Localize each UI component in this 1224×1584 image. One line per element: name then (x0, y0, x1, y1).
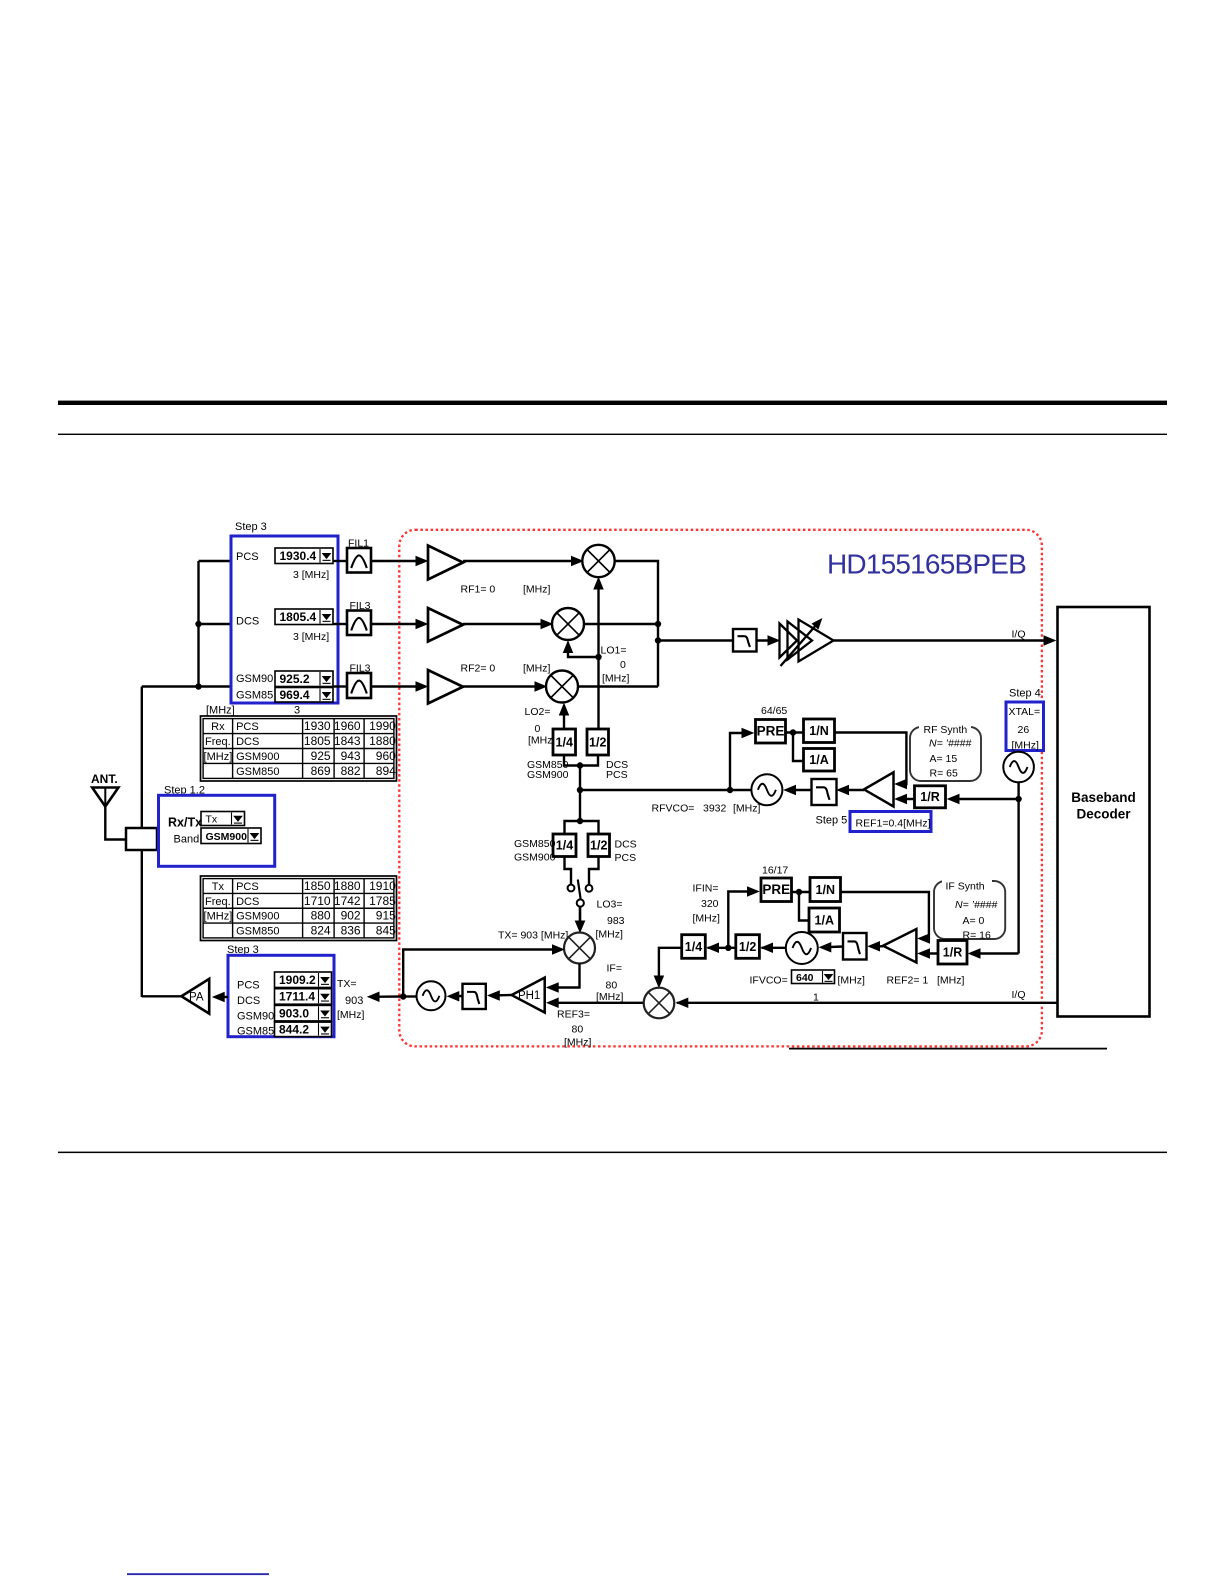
divider 1/4 (IF LO) (682, 935, 706, 959)
svg-text:1880: 1880 (334, 879, 361, 893)
svg-text:1/N: 1/N (816, 883, 835, 897)
divider 1/A (IF) (809, 908, 840, 932)
wire LNA1 to mixer M1 (463, 560, 580, 562)
svg-text:RF2= 0: RF2= 0 (461, 663, 496, 675)
Step 3 Rx selection box (blue) (231, 536, 338, 703)
switch contact right (586, 885, 593, 892)
dropdown Rx PCS 1930.4 (275, 548, 333, 564)
divider 1/N (RF) (804, 719, 835, 743)
wire LO2 from divider 1/4 (563, 706, 565, 729)
svg-text:1710: 1710 (304, 894, 331, 908)
arrowhead into LNA1 (416, 557, 427, 566)
svg-text:1930: 1930 (304, 719, 331, 733)
junction Rx bus / DCS (195, 621, 201, 627)
wire Tx box to PA (216, 996, 229, 998)
phase comparator amp (IF) (883, 929, 916, 963)
svg-text:PCS: PCS (606, 769, 628, 781)
svg-text:836: 836 (341, 923, 361, 937)
wire FIL3 to LNA2 (371, 623, 425, 625)
wire IF PRE to 1/N (792, 891, 811, 893)
wire TX loop filter to TXVCO (450, 995, 463, 998)
wire mixer M3 output (578, 685, 658, 687)
svg-text:1/A: 1/A (815, 913, 834, 927)
wire IF bus to Rx LPF (658, 639, 733, 641)
junction LO divider join (577, 762, 583, 768)
wire LO1 branch to mixer M2 (568, 644, 599, 658)
wire Rx vertical (switch up to GSM row) (141, 687, 143, 829)
svg-text:Baseband: Baseband (1071, 790, 1136, 805)
svg-text:[MHz]: [MHz] (733, 803, 760, 815)
svg-text:I/Q: I/Q (1012, 629, 1026, 641)
switch contact left (568, 885, 575, 892)
LNA amplifier (PCS) (428, 546, 463, 580)
IFVCO oscillator (786, 932, 818, 964)
page rule thick top (58, 401, 1167, 405)
TX loop filter (463, 984, 486, 1009)
arrowhead LO1 into mixer M2 (564, 642, 573, 653)
svg-text:PA: PA (189, 991, 204, 1003)
wire LO divider bottoms join (564, 755, 598, 766)
junction IFIN tap (725, 945, 731, 951)
svg-text:1/R: 1/R (920, 790, 939, 804)
footnote blue underline (127, 1573, 269, 1575)
wire Rx band bus vertical (197, 561, 199, 687)
arrowhead LO3 into TX mixer (575, 921, 584, 932)
arrowhead RF 1/N into comparator (896, 780, 907, 789)
arrowhead into mixer M1 (572, 557, 583, 566)
wire RF 1/R to comparator (897, 798, 915, 800)
svg-text:1/R: 1/R (943, 946, 962, 960)
svg-text:869: 869 (311, 764, 331, 778)
power amplifier PA (181, 979, 209, 1014)
Step 1.2 selection box (blue) (159, 795, 275, 866)
svg-text:1/A: 1/A (809, 753, 828, 767)
svg-text:DCS: DCS (236, 736, 259, 748)
svg-text:[MHz]: [MHz] (337, 1009, 364, 1021)
svg-text:PRE: PRE (762, 882, 790, 897)
svg-text:GSM90: GSM90 (237, 1011, 274, 1023)
wire VGA to baseband I/Q (834, 639, 1053, 641)
svg-text:0: 0 (535, 723, 541, 735)
Rx output lowpass filter (733, 629, 757, 652)
antenna switch box (126, 828, 157, 850)
wire TX 1/2 to switch contact (589, 857, 599, 885)
svg-text:983: 983 (607, 915, 625, 927)
chip boundary HD155165BPEB (red dotted) (399, 530, 1042, 1047)
svg-text:[MHz]: [MHz] (523, 663, 550, 675)
junction TXVCO output (400, 993, 406, 999)
arrowhead into IF 1/2 (762, 943, 773, 952)
arrowhead IF into PH1 (547, 983, 558, 992)
wire PCS row input (199, 560, 232, 562)
svg-text:PCS: PCS (236, 881, 259, 893)
dropdown Tx DCS 1711.4 (275, 989, 332, 1005)
svg-text:[MHz]: [MHz] (838, 975, 865, 987)
dropdown Rx/Tx = Tx (201, 812, 245, 826)
svg-text:1880: 1880 (369, 734, 396, 748)
wire TX feedback to TX mixer (403, 950, 561, 997)
arrowhead into TX mixer (553, 945, 564, 954)
wire Rx LPF to VGA (757, 639, 777, 641)
junction RFVCO to PRE (727, 787, 733, 793)
wire RF loop filter to VCO (787, 789, 812, 791)
divider 1/R (RF) (915, 786, 946, 808)
arrowhead into IF PRE (748, 887, 759, 896)
dropdown Tx GSM900 903.0 (275, 1005, 332, 1021)
arrowhead into TXVCO (448, 992, 459, 1001)
svg-text:3: 3 (294, 705, 300, 717)
svg-text:[MHz]: [MHz] (204, 911, 233, 923)
svg-text:IF=: IF= (607, 963, 622, 975)
phase comparator amp (RF) (864, 772, 894, 806)
svg-text:DCS: DCS (615, 839, 637, 851)
IF Synth info box (934, 875, 1005, 939)
svg-text:64/65: 64/65 (761, 705, 787, 717)
svg-text:844.2: 844.2 (279, 1023, 309, 1037)
svg-text:RFVCO=: RFVCO= (652, 803, 695, 815)
divider 1/R (IF) (938, 941, 967, 965)
svg-text:N= ’####: N= ’#### (929, 738, 971, 750)
wire TX 1/4 to switch contact (565, 857, 572, 885)
junction IF PRE output (796, 889, 802, 895)
svg-text:A= 0: A= 0 (963, 915, 985, 927)
wire GSM row input (142, 685, 231, 687)
Step 3 Tx selection box (blue) (228, 955, 334, 1036)
divider 1/4 (TX LO) (553, 834, 576, 857)
junction IF bus / Rx chain (655, 637, 661, 643)
svg-text:[MHz]: [MHz] (204, 751, 233, 763)
RF Synth info box (910, 721, 981, 781)
svg-text:R= 65: R= 65 (930, 768, 958, 780)
svg-text:0: 0 (620, 659, 626, 671)
svg-text:[MHz]: [MHz] (602, 673, 629, 685)
svg-text:1785: 1785 (369, 894, 396, 908)
arrowhead into mixer M3 (535, 682, 546, 691)
dropdown Band = GSM900 (201, 828, 261, 844)
svg-text:GSM850: GSM850 (514, 838, 556, 850)
bandpass filter FIL1 (347, 548, 371, 573)
arrowhead into RF 1/R (948, 795, 959, 804)
svg-text:GSM900: GSM900 (514, 852, 556, 864)
dropdown Rx DCS 1805.4 (275, 609, 333, 625)
svg-text:845: 845 (376, 923, 396, 937)
page rule thin lower (58, 1152, 1167, 1154)
arrowhead I/Q into IF mixer (677, 998, 688, 1007)
svg-text:1742: 1742 (334, 894, 361, 908)
wire RFVCO output line (580, 789, 752, 791)
wire XTAL to IF 1/R (971, 952, 1019, 954)
XTAL box (blue) (1006, 702, 1044, 751)
junction IF bus / M2 (655, 621, 661, 627)
svg-text:960: 960 (376, 749, 396, 763)
arrowhead into IFVCO (820, 943, 831, 952)
svg-text:320: 320 (701, 898, 719, 910)
svg-text:3 [MHz]: 3 [MHz] (293, 569, 329, 581)
svg-text:DCS: DCS (237, 995, 260, 1007)
arrowhead into IF 1/4 (708, 943, 719, 952)
svg-text:1/4: 1/4 (556, 735, 573, 749)
arrowhead into RF loop filter (838, 786, 849, 795)
svg-text:[MHz]: [MHz] (528, 735, 555, 747)
junction XTAL to RF 1/R (1015, 796, 1021, 802)
wire FIL3 to LNA3 (371, 685, 425, 687)
svg-text:1990: 1990 (369, 719, 396, 733)
divider 1/2 (IF LO) (736, 935, 760, 959)
svg-text:[MHz]: [MHz] (1012, 740, 1039, 752)
divider 1/4 (LO2) (553, 729, 576, 755)
svg-text:26: 26 (1018, 724, 1030, 736)
wire LO3 switch to TX mixer (579, 907, 582, 929)
wire IF 1/2 to 1/4 (708, 947, 736, 949)
dropdown Rx GSM900 925.2 (275, 671, 333, 687)
arrowhead into TX loop filter (488, 991, 499, 1000)
IF mixer (644, 988, 675, 1019)
svg-text:640: 640 (796, 972, 814, 984)
wire RFVCO to RF PRE (730, 733, 750, 790)
wire IF 1/R to comparator (921, 952, 939, 954)
wire RF comparator to loop filter (840, 789, 865, 791)
svg-text:3 [MHz]: 3 [MHz] (293, 631, 329, 643)
svg-text:1960: 1960 (334, 719, 361, 733)
svg-text:[MHz]: [MHz] (523, 584, 550, 596)
svg-text:3932: 3932 (703, 803, 727, 815)
svg-text:PCS: PCS (236, 551, 259, 563)
svg-text:LO3=: LO3= (597, 899, 623, 911)
divider 1/N (IF) (810, 878, 841, 902)
svg-text:PRE: PRE (757, 724, 785, 739)
junction Rx bus / GSM (195, 683, 201, 689)
wire IF comparator to loop filter (871, 945, 884, 947)
svg-text:Freq.: Freq. (205, 896, 231, 908)
svg-text:1: 1 (813, 992, 819, 1004)
RFVCO oscillator (751, 774, 782, 805)
antenna ANT. (91, 772, 118, 807)
svg-text:LO1=: LO1= (601, 645, 627, 657)
svg-text:80: 80 (606, 980, 618, 992)
svg-text:GSM900: GSM900 (236, 751, 279, 763)
prescaler PRE (RF) (756, 720, 786, 744)
wire antenna to switch (105, 807, 126, 840)
wire XTAL oscillator down to IF 1/R (1017, 782, 1019, 953)
arrowhead into LNA2 (416, 620, 427, 629)
LNA amplifier (DCS) (428, 608, 463, 642)
Rx frequency table (201, 716, 397, 781)
wire TX mixer IF output to PH1 (550, 964, 580, 988)
phase detector PH1 (512, 978, 545, 1013)
svg-text:1/4: 1/4 (685, 940, 702, 954)
svg-text:80: 80 (572, 1024, 584, 1036)
wire RF 1/N to phase comparator (835, 733, 907, 785)
svg-text:Decoder: Decoder (1076, 807, 1131, 822)
arrowhead IF 1/R into comparator (919, 949, 930, 958)
arrowhead into VGA (768, 636, 779, 645)
variable gain amplifier VGA (780, 619, 834, 666)
svg-text:A= 15: A= 15 (930, 753, 958, 765)
svg-text:1910: 1910 (369, 879, 396, 893)
svg-text:925.2: 925.2 (280, 672, 310, 686)
svg-text:PCS: PCS (237, 980, 260, 992)
svg-text:943: 943 (341, 749, 361, 763)
wire FIL1 to LNA1 (371, 560, 425, 562)
wire TX output to PA side (371, 995, 404, 998)
wire PCS dropdown to FIL1 (333, 560, 347, 562)
TX mixer (564, 933, 595, 964)
svg-text:1805.4: 1805.4 (280, 610, 317, 624)
junction LO1 branch (595, 654, 601, 660)
arrowhead RF 1/R into comparator (896, 795, 907, 804)
arrowhead into IF loop filter (869, 942, 880, 951)
svg-text:GSM850: GSM850 (236, 766, 279, 778)
wire TX divider tops join (565, 821, 599, 834)
wire IF PRE junction to 1/A (799, 892, 809, 921)
svg-text:IFIN=: IFIN= (693, 883, 719, 895)
wire DCS row input (199, 623, 232, 625)
dropdown IFVCO 640 (792, 970, 835, 984)
svg-text:[MHz]: [MHz] (596, 991, 623, 1003)
svg-text:[MHz]: [MHz] (596, 929, 623, 941)
svg-text:PCS: PCS (236, 721, 259, 733)
svg-text:1850: 1850 (304, 879, 331, 893)
underline right of diagram (789, 1048, 1107, 1050)
junction RF PRE output (790, 729, 796, 735)
REF1 box (blue) (850, 812, 931, 832)
Tx frequency table (201, 876, 397, 941)
wire LO1 from divider 1/2 (597, 580, 599, 729)
arrowhead I/Q into baseband (1044, 636, 1055, 645)
svg-text:GSM900: GSM900 (236, 911, 279, 923)
loop filter (IF) (843, 933, 867, 960)
svg-text:GSM900: GSM900 (527, 769, 569, 781)
svg-text:Band: Band (174, 834, 200, 846)
arrowhead REF3 into PH1 (547, 998, 558, 1007)
svg-text:LO2=: LO2= (525, 706, 551, 718)
arrowhead LO1 into mixer M1 (594, 578, 603, 589)
divider 1/2 (LO1) (587, 729, 609, 755)
arrowhead TX output (368, 992, 379, 1001)
loop filter (RF) (812, 779, 837, 805)
Baseband Decoder box (1058, 607, 1150, 1017)
svg-text:Rx/Tx: Rx/Tx (168, 816, 202, 830)
svg-text:HD155165BPEB: HD155165BPEB (827, 549, 1026, 580)
wire IF loop filter to IFVCO (822, 945, 843, 948)
svg-text:880: 880 (311, 909, 331, 923)
wire IF 1/4 to IF mixer (659, 948, 682, 985)
svg-text:1/2: 1/2 (589, 735, 606, 749)
svg-text:N= ’####: N= ’#### (955, 899, 997, 911)
svg-text:903: 903 (345, 995, 363, 1007)
svg-text:GSM85: GSM85 (236, 690, 273, 702)
wire TXVCO output (403, 995, 416, 997)
arrowhead into RF PRE (742, 729, 753, 738)
svg-text:PCS: PCS (615, 852, 637, 864)
svg-text:RF1= 0: RF1= 0 (461, 584, 496, 596)
wire mixer M1 output to IF bus (615, 561, 658, 687)
arrowhead into mixer M2 (541, 620, 552, 629)
svg-text:Step 4: Step 4 (1009, 688, 1041, 700)
wire GSM dropdown to FIL3 (333, 685, 347, 687)
wire IF 1/N to comparator (841, 892, 929, 939)
svg-text:969.4: 969.4 (280, 688, 310, 702)
wire IFIN to IF PRE (728, 892, 756, 948)
svg-text:1805: 1805 (304, 734, 331, 748)
dropdown Rx GSM850 969.4 (275, 688, 333, 703)
svg-text:REF3=: REF3= (557, 1009, 590, 1021)
divider 1/2 (TX LO) (588, 834, 610, 857)
switch lever (578, 880, 581, 900)
arrowhead into IF 1/R (969, 949, 980, 958)
svg-text:RF Synth: RF Synth (924, 724, 968, 736)
svg-text:Freq.: Freq. (205, 736, 231, 748)
svg-text:16/17: 16/17 (762, 865, 788, 877)
bandpass filter FIL3 (GSM) (347, 673, 371, 698)
svg-text:TX= 903 [MHz]: TX= 903 [MHz] (498, 930, 568, 942)
wire XTAL to RF 1/R (950, 798, 1019, 800)
svg-text:I/Q: I/Q (1012, 989, 1026, 1001)
TXVCO oscillator (417, 981, 446, 1010)
svg-text:1/4: 1/4 (556, 839, 573, 853)
junction RFVCO line (577, 787, 583, 793)
page rule thin upper (58, 434, 1167, 435)
svg-text:REF1=0.4[MHz]: REF1=0.4[MHz] (856, 818, 931, 830)
bandpass filter FIL3 (DCS) (347, 611, 371, 636)
svg-text:[MHz]: [MHz] (564, 1037, 591, 1049)
wire Tx vertical bus (switch to PA) (141, 850, 143, 997)
svg-text:882: 882 (341, 764, 361, 778)
mixer M2 (DCS) (552, 608, 584, 640)
LNA amplifier (GSM) (428, 670, 463, 704)
wire RF PRE junction to 1/A (793, 733, 804, 762)
switch pole (577, 899, 584, 906)
wire baseband I/Q to IF mixer (677, 1002, 1058, 1004)
svg-text:IFVCO=: IFVCO= (750, 975, 788, 987)
svg-text:[MHz]: [MHz] (693, 913, 720, 925)
svg-text:GSM90: GSM90 (236, 673, 273, 685)
svg-text:DCS: DCS (236, 896, 259, 908)
svg-text:902: 902 (341, 909, 361, 923)
svg-text:[MHz]: [MHz] (206, 705, 235, 717)
wire PA to antenna switch (142, 995, 182, 997)
svg-text:1711.4: 1711.4 (279, 990, 315, 1004)
svg-text:Tx: Tx (212, 881, 225, 893)
arrowhead LO into IF mixer (654, 976, 663, 987)
svg-text:894: 894 (376, 764, 396, 778)
svg-text:XTAL=: XTAL= (1009, 706, 1041, 718)
divider 1/A (RF) (804, 749, 835, 772)
wire RF PRE to 1/N (786, 731, 804, 733)
svg-text:ANT.: ANT. (91, 772, 118, 786)
junction TX divider feed (577, 818, 583, 824)
svg-text:925: 925 (311, 749, 331, 763)
arrowhead into RFVCO (785, 786, 796, 795)
svg-text:915: 915 (376, 909, 396, 923)
svg-text:TX=: TX= (337, 978, 357, 990)
svg-text:824: 824 (311, 923, 331, 937)
arrowhead IF 1/N into comparator (919, 934, 930, 943)
wire IFVCO to divider 1/2 (762, 947, 786, 949)
svg-text:REF2= 1: REF2= 1 (887, 975, 929, 987)
mixer M3 (GSM) (546, 671, 578, 703)
svg-text:GSM900: GSM900 (206, 831, 248, 843)
svg-text:GSM850: GSM850 (236, 925, 279, 937)
dropdown Tx PCS 1909.2 (275, 972, 332, 988)
svg-text:1930.4: 1930.4 (280, 549, 317, 563)
svg-text:1843: 1843 (334, 734, 361, 748)
wire LNA2 to mixer M2 (463, 623, 550, 625)
wire RFVCO feed vertical (579, 766, 581, 822)
svg-text:Rx: Rx (211, 721, 225, 733)
svg-text:Tx: Tx (206, 814, 218, 826)
svg-text:1/2: 1/2 (739, 940, 756, 954)
